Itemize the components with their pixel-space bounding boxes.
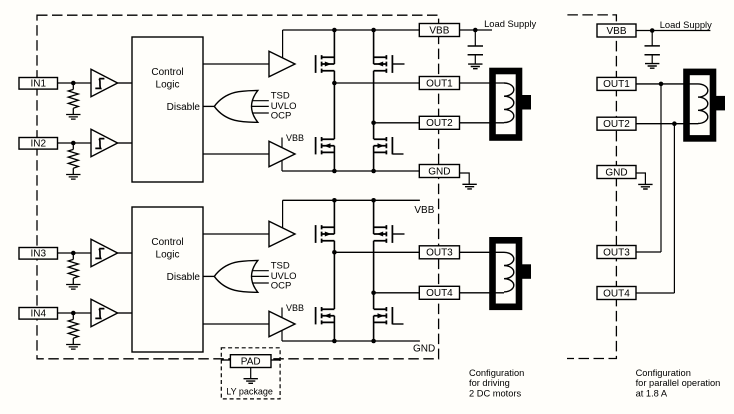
wire buffer out: [118, 82, 132, 84]
wire GND pin 2: [636, 173, 645, 184]
wire OUT4 to motor: [460, 292, 505, 294]
node IN3: [71, 251, 76, 256]
wire OUT4 node: [374, 292, 420, 294]
pin GND: [419, 165, 459, 178]
node OUT2-OUT4 join: [672, 121, 677, 126]
wire IN3 to buffer: [58, 252, 92, 254]
svg-text:LY package: LY package: [226, 387, 273, 397]
or-gate fault logic 2: [214, 261, 257, 293]
pin OUT2: [419, 116, 459, 129]
IC package dashed border: [37, 15, 439, 359]
gate driver 2: [269, 141, 295, 167]
wire OUT3 parallel join: [636, 84, 661, 252]
ground C2: [645, 64, 659, 69]
wire OUT4 parallel join: [636, 124, 674, 293]
svg-text:VBB: VBB: [606, 26, 626, 37]
svg-text:Load Supply: Load Supply: [660, 19, 712, 30]
wire driver4 gnd: [281, 330, 283, 341]
node GND rail: [332, 169, 337, 174]
svg-text:GND: GND: [605, 167, 627, 178]
pin IN4: [19, 308, 58, 320]
node OUT1: [332, 81, 337, 86]
svg-text:OUT3: OUT3: [603, 247, 630, 258]
wire GND rail 2: [282, 340, 420, 342]
wire driver1 supply: [282, 30, 284, 58]
svg-text:OUT1: OUT1: [603, 79, 630, 90]
node load supply: [473, 28, 478, 33]
svg-text:2 DC motors: 2 DC motors: [469, 388, 522, 398]
pin IN2: [19, 138, 58, 150]
wire to cap: [474, 30, 476, 46]
node VBB rail 2: [332, 198, 337, 203]
wire cap2 to gnd: [651, 55, 653, 64]
resistor pulldown IN3: [66, 253, 80, 289]
wire driver2 VBB stub: [281, 138, 283, 148]
wire fault inputs: [252, 101, 269, 113]
svg-text:VBB: VBB: [286, 303, 304, 313]
node VBB rail: [371, 28, 376, 33]
motor M3: [687, 72, 726, 138]
schmitt buffer IN1: [91, 69, 118, 96]
wire GND pin: [460, 173, 470, 184]
wire pad to border: [271, 359, 280, 361]
svg-text:PAD: PAD: [241, 356, 261, 367]
wire VBB to load supply 2: [636, 30, 710, 32]
svg-text:GND: GND: [413, 344, 435, 355]
svg-text:Control: Control: [151, 67, 183, 78]
wire driver2 gnd: [281, 160, 283, 171]
gate driver 3: [269, 221, 295, 247]
motor M2: [493, 240, 532, 306]
svg-text:Load Supply: Load Supply: [484, 18, 536, 29]
wire IN1 to buffer: [58, 82, 92, 84]
wire to gate driver 2: [203, 153, 269, 155]
resistor pulldown IN2: [66, 143, 80, 179]
node GND rail 2: [371, 339, 376, 344]
wire OUT2 node: [374, 122, 420, 124]
svg-text:for parallel operation: for parallel operation: [636, 378, 721, 388]
LY package dashed outline: [221, 348, 280, 399]
wire fault inputs 2: [252, 271, 269, 283]
svg-text:GND: GND: [428, 166, 450, 177]
svg-text:OUT1: OUT1: [426, 78, 453, 89]
node VBB rail: [332, 28, 337, 33]
pin GND cfg2: [597, 166, 636, 179]
transistor Q4 low-side right: [374, 137, 393, 154]
svg-text:for driving: for driving: [469, 378, 510, 388]
wire border to pad: [221, 359, 230, 361]
svg-text:VBB: VBB: [429, 25, 449, 36]
node OUT3: [332, 250, 337, 255]
pin OUT4 cfg2: [597, 287, 636, 300]
node OUT1-OUT3 join: [659, 82, 664, 87]
wire pad to gnd: [250, 368, 252, 379]
node IN4: [71, 311, 76, 316]
pad terminal: [230, 355, 271, 368]
control logic U1: [132, 37, 203, 182]
wire driver4 VBB stub: [281, 308, 283, 318]
motor M1: [493, 71, 532, 138]
svg-text:OCP: OCP: [271, 280, 292, 291]
schmitt buffer IN2: [91, 129, 118, 156]
transistor Q3 low-side left: [316, 137, 335, 154]
pin VBB: [419, 24, 459, 37]
resistor pulldown IN1: [66, 83, 80, 119]
wire VBB rail 2: [283, 199, 420, 201]
svg-text:at 1.8 A: at 1.8 A: [636, 388, 668, 398]
pin OUT3 cfg2: [597, 246, 636, 259]
wire: [567, 15, 616, 359]
wire left half-bridge column 1: [333, 30, 335, 171]
resistor pulldown IN4: [66, 313, 80, 349]
gate driver 4: [269, 311, 295, 337]
pin OUT1: [419, 77, 459, 90]
transistor Q8 low-side right: [374, 307, 393, 324]
or-gate fault logic 1: [214, 91, 257, 123]
svg-text:IN1: IN1: [30, 79, 46, 90]
svg-text:Configuration: Configuration: [636, 368, 691, 378]
wire disable 2: [203, 275, 214, 277]
svg-text:OCP: OCP: [271, 110, 292, 121]
svg-text:OUT4: OUT4: [603, 288, 630, 299]
node OUT4: [371, 291, 376, 296]
wire GND rail 1: [282, 170, 419, 172]
wire OUT3 to motor: [460, 251, 505, 253]
wire to gate driver 4: [203, 323, 269, 325]
wire Q2 gate stub: [392, 63, 404, 65]
wire OUT3 node: [334, 251, 419, 253]
transistor Q1 high-side left: [316, 55, 335, 73]
wire IN2 to buffer: [58, 142, 92, 144]
wire OUT2 to motor 3: [636, 123, 698, 125]
node IN2: [71, 141, 76, 146]
svg-text:OUT2: OUT2: [603, 119, 630, 130]
wire driver3 supply: [282, 200, 284, 228]
wire OUT2 to motor: [460, 122, 505, 124]
node VBB rail 2: [371, 198, 376, 203]
pin OUT2 cfg2: [597, 117, 636, 130]
schmitt buffer IN4: [91, 299, 118, 326]
capacitor C2: [645, 46, 660, 55]
pin IN3: [19, 248, 58, 260]
transistor Q5 high-side left: [316, 225, 335, 243]
wire Q8 gate stub: [392, 323, 403, 325]
wire buffer out: [118, 142, 132, 144]
wire OUT1 to motor 3: [636, 83, 698, 85]
node GND rail: [371, 169, 376, 174]
wire disable: [203, 105, 214, 107]
wire to gate driver 1: [203, 63, 269, 65]
node GND rail 2: [332, 339, 337, 344]
svg-text:IN4: IN4: [30, 309, 46, 320]
wire buffer out: [118, 312, 132, 314]
svg-text:Configuration: Configuration: [469, 368, 524, 378]
ground C1: [468, 64, 482, 69]
control logic U2: [132, 207, 203, 352]
svg-text:IN3: IN3: [30, 249, 46, 260]
svg-text:IN2: IN2: [30, 139, 46, 150]
wire IN4 to buffer: [58, 312, 92, 314]
svg-text:Logic: Logic: [156, 80, 180, 91]
wire VBB rail 1: [283, 29, 420, 31]
transistor Q6 high-side right: [374, 225, 393, 243]
wire right half-bridge column 1: [373, 30, 375, 171]
transistor Q2 high-side right: [374, 55, 393, 73]
wire OUT1 to motor: [460, 82, 505, 84]
wire OUT1 node: [334, 82, 419, 84]
svg-text:Disable: Disable: [167, 102, 201, 113]
pin IN1: [19, 78, 58, 90]
wire to cap 2: [651, 31, 653, 46]
schmitt buffer IN3: [91, 239, 118, 266]
node OUT2: [371, 121, 376, 126]
ground PAD: [244, 379, 258, 384]
svg-text:Control: Control: [151, 237, 183, 248]
wire VBB to load supply: [460, 29, 493, 31]
svg-text:Logic: Logic: [156, 250, 180, 261]
transistor Q7 low-side left: [316, 307, 335, 324]
wire cap to gnd: [474, 55, 476, 64]
pin OUT1 cfg2: [597, 77, 636, 90]
wire Q4 gate stub: [392, 153, 403, 155]
svg-text:OUT2: OUT2: [426, 118, 453, 129]
pin OUT4: [419, 286, 459, 299]
ground GND pin 2: [638, 184, 652, 189]
wire buffer out: [118, 252, 132, 254]
node IN1: [71, 81, 76, 86]
pin VBB cfg2: [597, 24, 636, 37]
gate driver 1: [269, 51, 295, 77]
pin OUT3: [419, 246, 459, 259]
wire left half-bridge column 2: [333, 200, 335, 341]
svg-text:VBB: VBB: [286, 133, 304, 143]
svg-text:OUT3: OUT3: [426, 248, 453, 259]
wire Q6 gate stub: [392, 233, 404, 235]
svg-text:OUT4: OUT4: [426, 288, 453, 299]
wire right half-bridge column 2: [373, 200, 375, 341]
wire to gate driver 3: [203, 233, 269, 235]
svg-text:VBB: VBB: [414, 205, 434, 216]
svg-text:Disable: Disable: [167, 272, 201, 283]
capacitor C1: [468, 46, 483, 55]
ground GND pin: [462, 184, 476, 189]
node load supply 2: [650, 28, 655, 33]
